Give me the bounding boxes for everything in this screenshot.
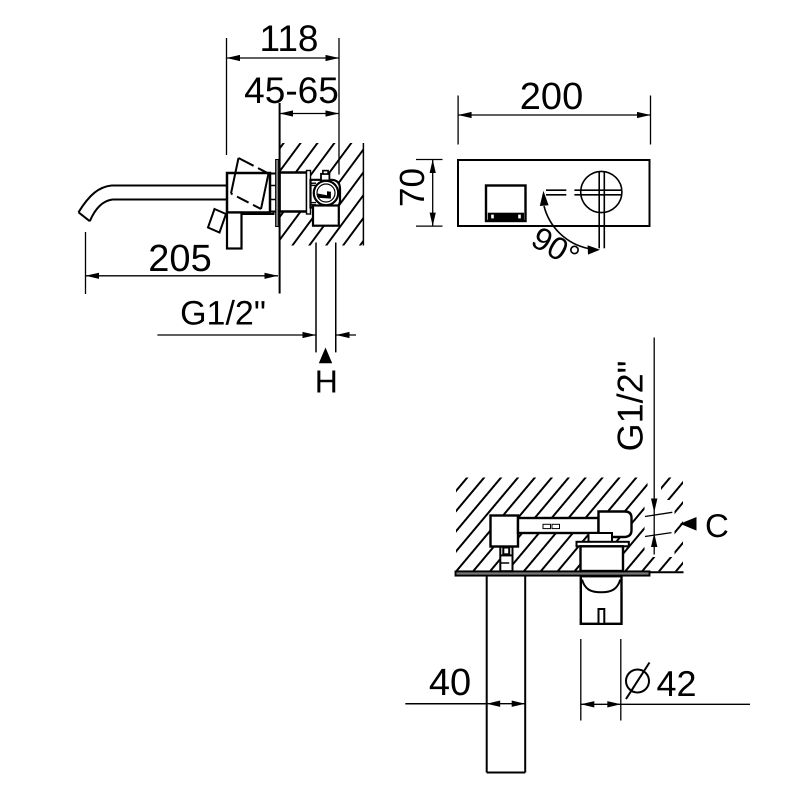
C tick upper (645, 512, 672, 516)
valve neck (589, 533, 613, 544)
cartridge dome arc (582, 580, 620, 593)
collar between body and flange top edge (270, 173, 276, 175)
dim 40 inner span line (487, 703, 526, 705)
svg-text:H: H (315, 364, 338, 400)
svg-text:45-65: 45-65 (244, 70, 339, 111)
white halo for G1/2 leader through hatch (648, 478, 662, 513)
dim 45-65 arrow left (280, 110, 293, 116)
handle vertical position left line (598, 172, 600, 249)
wall plate edge-on (gray) (456, 571, 650, 575)
arm slots (543, 524, 551, 528)
wall surface line right of plate (650, 571, 684, 573)
svg-text:205: 205 (148, 238, 211, 280)
cartridge outer circle (314, 181, 338, 205)
dim 118 arrow left (227, 55, 241, 61)
H arrow triangle (319, 348, 332, 364)
C tick lower (645, 533, 672, 537)
dia42 arrow right (607, 701, 621, 707)
connector lines upper (311, 182, 317, 184)
spout tube top line (112, 185, 228, 187)
water channel lines through collar (271, 185, 277, 187)
dim 200 arrow right (637, 112, 651, 118)
spout outlet black bar (488, 213, 524, 221)
dim 70 line (432, 160, 434, 227)
spout base block (plan) (491, 516, 519, 547)
arc arrowhead right (at vertical handle) (588, 245, 600, 254)
stub cap (323, 171, 328, 174)
dim 118 arrow right (326, 55, 340, 61)
dim 45-65 line (280, 113, 339, 115)
arc arrowhead up (at handle) (540, 191, 549, 206)
dim G1/2 arrow right-pointing (303, 332, 317, 338)
thin mounting plate in wall (307, 171, 311, 215)
spout column bottom edge (487, 772, 526, 774)
dim 70 extension tick bottom (416, 225, 443, 227)
cartridge housing (in wall) (581, 546, 624, 571)
dim 205 line (86, 275, 279, 277)
tilted body bottom edge (231, 194, 261, 210)
spout column below wall left line (486, 576, 488, 772)
diameter symbol circle (626, 670, 649, 693)
spout stem cross line (500, 554, 512, 556)
cartridge inner circle (317, 184, 335, 202)
spout stem lower step line (500, 562, 509, 564)
connector lines lower (311, 202, 317, 204)
handle horizontal position upper line (dash + solid) (546, 189, 566, 191)
spout arm (plan) (518, 518, 599, 533)
flange plate edge-on (gray strip) (276, 160, 279, 227)
diameter symbol slash (626, 663, 650, 700)
svg-text:42: 42 (657, 663, 697, 704)
tilted spout body (alternate position, partly dashed) (231, 158, 269, 209)
tilted body left edge (231, 158, 239, 194)
svg-text:70: 70 (393, 168, 432, 207)
cartridge protruding below plate (581, 576, 622, 624)
dim 200 extension line right (650, 96, 652, 145)
cartridge slot flag (black) (318, 191, 331, 198)
spout mouth line (79, 212, 90, 221)
handle horizontal position lower line (dash + solid) (546, 194, 566, 196)
dim 205 arrow left (86, 273, 100, 279)
C pointer triangle (680, 517, 697, 531)
dim 200 line (458, 114, 650, 116)
wall face line (279, 103, 281, 294)
C dim arrow up (651, 533, 657, 547)
90 degree rotation arc (544, 206, 589, 249)
dim 70 arrow top (430, 160, 436, 174)
dim G1/2 arrow left-pointing (336, 332, 350, 338)
dim 40 arrow left (487, 701, 501, 707)
wall hatch bottom view (456, 478, 683, 572)
handle rosette circle (581, 171, 622, 212)
spout stem below block (500, 547, 512, 571)
spout column below wall right line (524, 576, 526, 772)
black bar white notch right (518, 215, 521, 219)
dim 70 arrow bottom (430, 213, 436, 227)
valve block (plan) (599, 512, 632, 538)
body bottom ledge (242, 212, 274, 214)
dim 205 arrow right (265, 273, 279, 279)
spout tip curve bottom (90, 200, 113, 222)
dim 205 extension line left (85, 232, 87, 294)
spout stem inner slot (503, 548, 509, 555)
black bar white notch left (491, 215, 494, 219)
spout tip curve top (79, 186, 112, 213)
tilted body right edge (261, 174, 269, 210)
supply pipe left line (315, 243, 317, 353)
valve body outline (311, 180, 341, 208)
dim 40 line (405, 703, 486, 705)
lever handle vertical position (227, 213, 242, 249)
svg-text:C: C (705, 507, 729, 544)
spout outlet square (486, 186, 526, 222)
dim G1/2 right stub (336, 334, 356, 336)
collar bottom edge (270, 211, 276, 213)
svg-text:40: 40 (429, 662, 471, 704)
dim 45-65 arrow right (326, 110, 340, 116)
dim 200 extension line left (457, 96, 459, 145)
dia42 extension line right (620, 639, 622, 721)
wall back edge line (362, 143, 364, 246)
dia42 dim line (581, 703, 750, 705)
white halo for C dimension (645, 500, 675, 557)
dim 118 line (227, 57, 340, 59)
dia42 extension line left (580, 639, 582, 721)
in-wall body box (280, 173, 307, 212)
svg-text:118: 118 (260, 18, 319, 59)
dia42 arrow left (581, 701, 595, 707)
cartridge slot at bottom (599, 609, 605, 624)
tilted body top edge (239, 158, 269, 174)
dim 40 arrow right (512, 701, 526, 707)
handle vertical position right line (603, 172, 605, 249)
G1/2 leader line vertical (653, 338, 655, 555)
svg-text:G1/2": G1/2" (610, 361, 651, 452)
face plate rectangle (458, 160, 650, 226)
spout body square (227, 173, 270, 213)
supply pipe right line (335, 243, 337, 353)
wall hatch side view (280, 143, 364, 246)
valve lower box (313, 206, 339, 226)
svg-text:200: 200 (520, 76, 583, 118)
svg-text:G1/2": G1/2" (180, 295, 266, 333)
dim G1/2 leader line left part (157, 334, 316, 336)
stub fitting on valve top (321, 174, 329, 181)
dim 118/45-65 extension line right (338, 38, 340, 175)
dim 70 extension tick top (416, 159, 443, 161)
C dim arrow down (651, 499, 657, 513)
dim 200 arrow left (458, 112, 472, 118)
dim 118 extension line left (226, 38, 228, 155)
cartridge ears bar (577, 542, 629, 547)
lever handle tilted position (208, 209, 226, 233)
spout tube bottom line (113, 199, 228, 201)
